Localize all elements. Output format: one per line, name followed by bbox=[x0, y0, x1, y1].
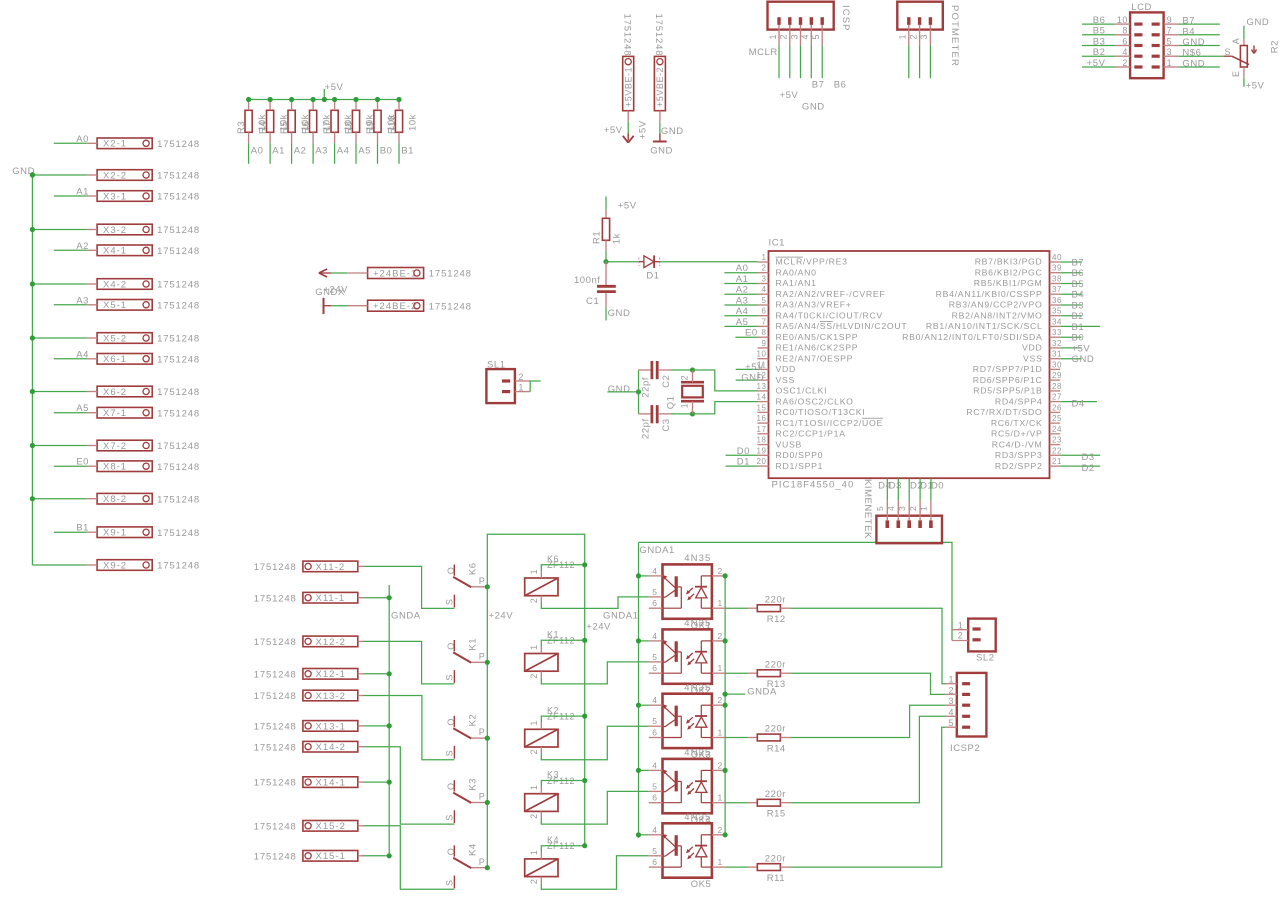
wire net D3 bbox=[897, 478, 899, 501]
svg-text:1751248: 1751248 bbox=[157, 462, 200, 473]
connector X5-2 bbox=[97, 333, 152, 344]
svg-text:30: 30 bbox=[1052, 360, 1062, 369]
pin 37 RB4/AN11/KBI0/CSSPP bbox=[1050, 293, 1061, 295]
svg-text:GND: GND bbox=[802, 102, 825, 113]
junction bbox=[311, 97, 316, 102]
svg-text:B3: B3 bbox=[1093, 36, 1106, 47]
svg-text:34: 34 bbox=[1052, 317, 1062, 326]
svg-text:3: 3 bbox=[789, 34, 799, 40]
svg-text:B1: B1 bbox=[76, 523, 89, 534]
svg-text:R2: R2 bbox=[1270, 40, 1280, 53]
wire bbox=[627, 122, 629, 134]
svg-text:P: P bbox=[479, 792, 486, 802]
svg-text:1: 1 bbox=[718, 663, 723, 673]
wire GNDA1 bus to OK1 pin4 bbox=[639, 575, 649, 577]
wire net B4 bbox=[1060, 293, 1081, 295]
wire net A3 bbox=[724, 304, 757, 306]
svg-text:1751248: 1751248 bbox=[157, 300, 200, 311]
svg-text:4: 4 bbox=[652, 825, 657, 835]
svg-text:PIC18F4550_40: PIC18F4550_40 bbox=[772, 480, 855, 491]
relay coil K4 ZF112 bbox=[525, 859, 558, 877]
wire net B3 bbox=[1060, 304, 1081, 306]
wire R1 to node bbox=[605, 251, 607, 262]
pin 18 VUSB bbox=[758, 444, 769, 446]
svg-text:5: 5 bbox=[652, 846, 657, 856]
pin 19 RD0/SPP0 bbox=[758, 454, 769, 456]
wire net A0 bbox=[724, 272, 757, 274]
svg-text:RC1/T1OSI/ICCP2/UOE: RC1/T1OSI/ICCP2/UOE bbox=[776, 418, 883, 428]
wire coil K4 pin2 to opto bbox=[541, 856, 649, 890]
pin 5 bbox=[1152, 44, 1160, 47]
svg-text:6: 6 bbox=[652, 728, 657, 738]
connector X2-1 bbox=[97, 138, 152, 149]
svg-text:2: 2 bbox=[762, 264, 767, 273]
svg-text:P: P bbox=[479, 576, 486, 586]
svg-text:VDD: VDD bbox=[1022, 343, 1042, 353]
svg-text:GND: GND bbox=[608, 308, 631, 319]
junction bbox=[690, 411, 695, 416]
wire bbox=[331, 272, 347, 274]
svg-text:1: 1 bbox=[718, 598, 723, 608]
optocoupler OK1 4N35 bbox=[663, 564, 712, 618]
junction bbox=[30, 335, 35, 340]
relay coil K2 ZF112 bbox=[525, 729, 558, 747]
wire X14-2 to relay contact S bbox=[363, 747, 454, 824]
svg-text:MCLR: MCLR bbox=[749, 47, 778, 58]
wire GND bus to X7-2 bbox=[32, 445, 86, 447]
svg-text:1: 1 bbox=[762, 253, 767, 262]
svg-text:A5: A5 bbox=[736, 317, 749, 328]
svg-text:4: 4 bbox=[652, 760, 657, 770]
svg-text:X3-2: X3-2 bbox=[103, 225, 127, 236]
svg-text:1751248: 1751248 bbox=[157, 171, 200, 182]
pin 29 RD6/SPP6/P1C bbox=[1050, 379, 1061, 381]
pin 36 RB3/AN9/CCP2/VPO bbox=[1050, 304, 1061, 306]
svg-text:31: 31 bbox=[1052, 350, 1062, 359]
junction bbox=[582, 638, 587, 643]
pin 30 RD7/SPP7/P1D bbox=[1050, 368, 1061, 370]
svg-text:9: 9 bbox=[1167, 15, 1173, 25]
svg-text:1751248: 1751248 bbox=[429, 301, 472, 312]
pin 1 bbox=[1152, 65, 1160, 68]
svg-text:X14-2: X14-2 bbox=[316, 742, 346, 753]
svg-text:O: O bbox=[446, 718, 456, 726]
svg-text:5: 5 bbox=[652, 652, 657, 662]
pin 2 bbox=[1134, 65, 1142, 68]
svg-text:21: 21 bbox=[1052, 457, 1062, 466]
svg-text:2: 2 bbox=[908, 34, 918, 40]
svg-text:RC0/TIOSO/T13CKI: RC0/TIOSO/T13CKI bbox=[776, 407, 866, 417]
svg-text:P: P bbox=[479, 857, 486, 867]
svg-text:+24V: +24V bbox=[489, 611, 514, 622]
svg-text:B0: B0 bbox=[380, 146, 393, 157]
svg-text:IC1: IC1 bbox=[769, 238, 785, 249]
svg-text:RD3/SPP3: RD3/SPP3 bbox=[995, 450, 1043, 460]
wire net GND bbox=[736, 379, 758, 381]
svg-text:7: 7 bbox=[762, 317, 767, 326]
svg-text:2: 2 bbox=[529, 598, 539, 604]
svg-text:D1: D1 bbox=[646, 271, 659, 282]
wire net +5V bbox=[1082, 66, 1115, 68]
svg-text:O: O bbox=[446, 567, 456, 575]
pin 9 bbox=[1152, 23, 1160, 26]
pin 13 OSC1/CLKI bbox=[758, 390, 769, 392]
junction bbox=[723, 832, 728, 837]
pin 31 VSS bbox=[1050, 358, 1061, 360]
junction bbox=[30, 172, 35, 177]
pin 5 bbox=[821, 17, 824, 25]
wire to C3 bbox=[638, 392, 640, 414]
svg-text:R12: R12 bbox=[767, 614, 786, 625]
svg-text:Q1: Q1 bbox=[666, 396, 677, 410]
connector +5VBE-2 bbox=[654, 56, 665, 110]
wire bbox=[919, 46, 921, 79]
wire net GND bbox=[1060, 358, 1081, 360]
svg-text:P: P bbox=[479, 651, 486, 661]
junction bbox=[636, 832, 641, 837]
relay coil K6 ZF112 bbox=[525, 578, 558, 596]
svg-text:1751248: 1751248 bbox=[254, 593, 297, 604]
svg-text:25: 25 bbox=[1052, 414, 1062, 423]
junction bbox=[30, 281, 35, 286]
svg-text:E0: E0 bbox=[76, 457, 89, 468]
svg-text:RC7/RX/DT/SDO: RC7/RX/DT/SDO bbox=[966, 407, 1042, 417]
svg-text:RD4/SPP4: RD4/SPP4 bbox=[995, 396, 1043, 406]
svg-text:38: 38 bbox=[1052, 275, 1062, 284]
wire X15-1 to GNDA bus bbox=[363, 855, 389, 857]
pin 7 bbox=[1152, 33, 1160, 36]
pin 5 bbox=[885, 520, 889, 528]
svg-text:B2: B2 bbox=[1072, 311, 1085, 322]
connector X4-2 bbox=[97, 279, 152, 290]
svg-text:+5V: +5V bbox=[325, 82, 344, 93]
svg-text:6: 6 bbox=[762, 307, 767, 316]
svg-text:2: 2 bbox=[718, 695, 723, 705]
junction bbox=[723, 692, 728, 697]
relay coil K3 ZF112 bbox=[525, 794, 558, 812]
svg-text:RA4/T0CKI/CIOUT/RCV: RA4/T0CKI/CIOUT/RCV bbox=[776, 310, 883, 320]
svg-text:OSC1/CLKI: OSC1/CLKI bbox=[776, 386, 828, 396]
svg-text:35: 35 bbox=[1052, 307, 1062, 316]
svg-text:1751248: 1751248 bbox=[157, 225, 200, 236]
svg-text:VDD: VDD bbox=[776, 364, 796, 374]
relay coil K1 ZF112 bbox=[525, 654, 558, 672]
connector POTMETER bbox=[897, 2, 943, 30]
wire net A1 bbox=[269, 143, 271, 164]
crystal Q1 bbox=[681, 381, 704, 384]
svg-text:A4: A4 bbox=[736, 306, 749, 317]
resistor R6 10k bbox=[310, 110, 317, 132]
wire coil K3 pin1 to +24V bbox=[541, 781, 584, 787]
wire GND bus to X3-2 bbox=[32, 229, 86, 231]
svg-text:3: 3 bbox=[919, 34, 929, 40]
wire coil K2 pin2 to opto bbox=[541, 726, 649, 760]
svg-text:6: 6 bbox=[1122, 36, 1128, 46]
svg-text:1: 1 bbox=[529, 720, 539, 726]
pin 26 RC7/RX/DT/SDO bbox=[1050, 411, 1061, 413]
wire bbox=[659, 122, 661, 134]
svg-text:K1: K1 bbox=[468, 638, 479, 651]
svg-text:RD6/SPP6/P1C: RD6/SPP6/P1C bbox=[973, 375, 1043, 385]
connector ICSP2 bbox=[957, 673, 987, 737]
svg-text:GND: GND bbox=[741, 373, 764, 384]
svg-text:2: 2 bbox=[718, 631, 723, 641]
wire X13-1 to GNDA bus bbox=[363, 725, 389, 727]
pin 1 @MCLR@/VPP/RE3 bbox=[758, 261, 769, 263]
pin 3 RA1/AN1 bbox=[758, 283, 769, 285]
wire GND bus to X8-2 bbox=[32, 498, 86, 500]
svg-text:RC6/TX/CK: RC6/TX/CK bbox=[991, 418, 1043, 428]
wire D1 to IC1 pin 1 bbox=[660, 261, 758, 263]
svg-text:23: 23 bbox=[1052, 436, 1062, 445]
svg-text:X6-1: X6-1 bbox=[103, 354, 127, 365]
svg-text:R3: R3 bbox=[236, 121, 247, 134]
svg-text:RC4/D-/VM: RC4/D-/VM bbox=[992, 439, 1043, 449]
svg-text:VSS: VSS bbox=[776, 375, 795, 385]
junction bbox=[30, 389, 35, 394]
wire net A3 to X5-1 bbox=[54, 304, 87, 306]
junction bbox=[387, 780, 392, 785]
svg-text:X4-1: X4-1 bbox=[103, 246, 127, 257]
svg-text:19: 19 bbox=[757, 446, 767, 455]
svg-text:X8-1: X8-1 bbox=[103, 462, 127, 473]
ground GNDX symbol bbox=[323, 298, 325, 314]
svg-text:4: 4 bbox=[948, 707, 954, 717]
svg-text:220r: 220r bbox=[765, 853, 786, 864]
svg-text:3: 3 bbox=[762, 275, 767, 284]
svg-text:17: 17 bbox=[757, 425, 767, 434]
wire GND stub bbox=[607, 391, 638, 393]
wire net +5V bbox=[736, 368, 758, 370]
svg-text:1751248: 1751248 bbox=[254, 742, 297, 753]
svg-text:GND: GND bbox=[1182, 37, 1205, 48]
svg-text:X9-2: X9-2 bbox=[103, 560, 127, 571]
svg-text:B2: B2 bbox=[1093, 47, 1106, 58]
svg-text:5: 5 bbox=[762, 296, 767, 305]
svg-text:2: 2 bbox=[529, 673, 539, 679]
wire +24V bus left bbox=[487, 534, 584, 868]
svg-text:1751248: 1751248 bbox=[157, 280, 200, 291]
pin 39 RB6/KBI2/PGC bbox=[1050, 272, 1061, 274]
svg-text:28: 28 bbox=[1052, 382, 1062, 391]
junction bbox=[723, 768, 728, 773]
wire coil K6 pin2 to opto bbox=[541, 597, 649, 609]
pin 4 bbox=[962, 715, 970, 718]
connector X9-2 bbox=[97, 560, 152, 571]
connector X7-1 bbox=[97, 407, 152, 418]
pin 40 RB7/BKI3/PGD bbox=[1050, 261, 1061, 263]
resistor R15 220r bbox=[725, 802, 748, 804]
pin 14 RA6/OSC2/CLKO bbox=[758, 401, 769, 403]
svg-text:5: 5 bbox=[948, 718, 954, 728]
svg-text:B5: B5 bbox=[1072, 279, 1085, 290]
pin 12 VSS bbox=[758, 379, 769, 381]
svg-text:B6: B6 bbox=[834, 80, 847, 91]
pin 2 bbox=[918, 520, 922, 528]
svg-text:8: 8 bbox=[762, 328, 767, 337]
junction bbox=[582, 714, 587, 719]
wire +5V bus bbox=[249, 99, 399, 101]
svg-text:1751248: 1751248 bbox=[254, 691, 297, 702]
wire R14 to ICSP2 pin3 bbox=[791, 705, 945, 737]
wire net A1 bbox=[724, 283, 757, 285]
svg-text:RD5/SPP5/P1B: RD5/SPP5/P1B bbox=[973, 386, 1042, 396]
svg-text:GND: GND bbox=[608, 384, 631, 395]
svg-text:ICSP: ICSP bbox=[840, 5, 851, 32]
relay contact K3 bbox=[453, 780, 455, 791]
svg-text:A4: A4 bbox=[76, 349, 89, 360]
svg-text:R4: R4 bbox=[258, 121, 269, 134]
wire bbox=[810, 46, 812, 79]
wire GND bus to X6-2 bbox=[32, 391, 86, 393]
svg-text:RA5/AN4/SS/HLVDIN/C2OUT: RA5/AN4/SS/HLVDIN/C2OUT bbox=[776, 321, 908, 331]
svg-text:B6: B6 bbox=[1093, 15, 1106, 26]
svg-text:100nf: 100nf bbox=[574, 275, 601, 286]
wire bbox=[331, 305, 347, 307]
junction bbox=[30, 227, 35, 232]
svg-text:1751248: 1751248 bbox=[157, 441, 200, 452]
svg-text:4N35: 4N35 bbox=[684, 748, 711, 759]
potentiometer R2 bbox=[1243, 39, 1245, 45]
svg-text:4: 4 bbox=[1122, 47, 1128, 57]
svg-text:KIMENETEK: KIMENETEK bbox=[862, 479, 873, 539]
svg-text:1751248: 1751248 bbox=[157, 334, 200, 345]
pin 28 RD5/SPP5/P1B bbox=[1050, 390, 1061, 392]
svg-text:S: S bbox=[445, 814, 455, 821]
wire +5V stub bbox=[323, 89, 325, 100]
svg-text:1751248: 1751248 bbox=[254, 562, 297, 573]
wire R13 to ICSP2 pin2 bbox=[791, 673, 945, 694]
optocoupler OK4 4N35 bbox=[663, 759, 712, 813]
wire GND bus to X5-2 bbox=[32, 337, 86, 339]
svg-text:E: E bbox=[1231, 70, 1241, 77]
wire net A4 bbox=[334, 143, 336, 164]
connector X3-2 bbox=[97, 224, 152, 235]
wire R11 to ICSP2 pin5 bbox=[791, 727, 945, 867]
junction bbox=[387, 723, 392, 728]
svg-text:1751248: 1751248 bbox=[157, 139, 200, 150]
svg-text:A5: A5 bbox=[76, 403, 89, 414]
svg-text:1: 1 bbox=[958, 620, 964, 630]
wire net N$6 bbox=[1179, 55, 1224, 57]
wire bbox=[929, 46, 931, 79]
svg-text:26: 26 bbox=[1052, 403, 1062, 412]
pin 1 bbox=[907, 17, 910, 25]
svg-text:+24BE-2: +24BE-2 bbox=[373, 301, 417, 312]
svg-text:P: P bbox=[479, 727, 486, 737]
pin 35 RB2/AN8/INT2/VMO bbox=[1050, 315, 1061, 317]
connector ICSP bbox=[768, 2, 834, 30]
svg-text:36: 36 bbox=[1052, 296, 1062, 305]
wire C1 to GND bbox=[605, 307, 607, 320]
junction bbox=[375, 97, 380, 102]
svg-text:+5V: +5V bbox=[1087, 58, 1106, 69]
svg-text:5: 5 bbox=[652, 781, 657, 791]
resistor R14 220r bbox=[725, 737, 748, 739]
svg-text:1751248: 1751248 bbox=[157, 494, 200, 505]
wire GNDA1 bus bbox=[638, 542, 640, 838]
svg-text:5: 5 bbox=[1167, 36, 1173, 46]
pin 15 RC0/TIOSO/T13CKI bbox=[758, 411, 769, 413]
wire net GND bbox=[1179, 45, 1220, 47]
wire net D1 bbox=[726, 465, 758, 467]
junction bbox=[353, 97, 358, 102]
svg-text:1751248: 1751248 bbox=[254, 778, 297, 789]
wire coil K3 pin2 to opto bbox=[541, 791, 649, 824]
pin 7 RA5/AN4/@SS@/HLVDIN/C2OUT bbox=[758, 325, 769, 327]
svg-text:GND: GND bbox=[1182, 59, 1205, 70]
wire GNDA stub bbox=[725, 693, 745, 695]
resistor R13 220r bbox=[725, 672, 748, 674]
svg-text:1751248: 1751248 bbox=[157, 246, 200, 257]
resistor R5 10k bbox=[288, 110, 295, 132]
svg-text:4: 4 bbox=[762, 285, 767, 294]
wire X12-1 to GNDA bus bbox=[363, 673, 389, 675]
wire net +5V bbox=[1060, 347, 1081, 349]
svg-text:S: S bbox=[445, 879, 455, 886]
svg-text:S: S bbox=[445, 750, 455, 757]
svg-text:4N35: 4N35 bbox=[684, 812, 711, 823]
svg-text:RE2/AN7/OESPP: RE2/AN7/OESPP bbox=[776, 353, 854, 363]
svg-text:3: 3 bbox=[1167, 47, 1173, 57]
junction bbox=[322, 97, 327, 102]
pin 33 RB0/AN12/INT0/LFT0/SDI/SDA bbox=[1050, 336, 1061, 338]
wire Q1 pin2 to IC1 pin13 bbox=[693, 370, 758, 391]
svg-text:14: 14 bbox=[757, 393, 767, 402]
wire GND bus to X9-2 bbox=[32, 564, 86, 566]
wire to C2 bbox=[638, 370, 640, 392]
junction bbox=[485, 800, 490, 805]
junction bbox=[387, 671, 392, 676]
svg-text:27: 27 bbox=[1052, 393, 1062, 402]
pin 16 RC1/T1OSI/ICCP2/@UOE@ bbox=[758, 422, 769, 424]
connector +5VBE-1 bbox=[623, 56, 634, 110]
junction bbox=[582, 843, 587, 848]
svg-text:1: 1 bbox=[529, 644, 539, 650]
connector X8-1 bbox=[97, 461, 152, 472]
svg-text:X13-2: X13-2 bbox=[316, 691, 346, 702]
svg-text:ICSP2: ICSP2 bbox=[950, 743, 980, 754]
wire coil K6 pin1 to +24V bbox=[541, 565, 584, 571]
svg-text:6: 6 bbox=[652, 663, 657, 673]
wire X15-2 to relay contact S bbox=[363, 826, 454, 890]
resistor R4 10k bbox=[267, 110, 274, 132]
svg-text:37: 37 bbox=[1052, 285, 1062, 294]
svg-text:1751248: 1751248 bbox=[429, 269, 472, 280]
connector X11-2 bbox=[303, 561, 358, 572]
svg-text:1751248: 1751248 bbox=[157, 354, 200, 365]
svg-text:1: 1 bbox=[718, 728, 723, 738]
svg-text:4N35: 4N35 bbox=[684, 553, 711, 564]
wire net B7 bbox=[1060, 261, 1081, 263]
svg-text:RB7/BKI3/PGD: RB7/BKI3/PGD bbox=[975, 257, 1043, 267]
wire net GNDA1 to SL2 bbox=[639, 542, 953, 640]
svg-text:GND: GND bbox=[1072, 354, 1095, 365]
svg-text:1: 1 bbox=[529, 784, 539, 790]
svg-text:RE1/AN6/CK2SPP: RE1/AN6/CK2SPP bbox=[776, 343, 859, 353]
pin 23 RC4/D-/VM bbox=[1050, 444, 1061, 446]
connector X13-2 bbox=[303, 690, 358, 701]
junction bbox=[636, 389, 641, 394]
junction GND bus top bbox=[30, 172, 35, 177]
svg-text:GND: GND bbox=[1247, 17, 1270, 28]
svg-text:1751248: 1751248 bbox=[157, 528, 200, 539]
wire X12-2 to relay contact S bbox=[363, 641, 454, 684]
svg-text:1751248: 1751248 bbox=[157, 408, 200, 419]
svg-text:B6: B6 bbox=[1072, 268, 1085, 279]
pin 9 RE1/AN6/CK2SPP bbox=[758, 347, 769, 349]
svg-text:1k: 1k bbox=[612, 233, 623, 244]
